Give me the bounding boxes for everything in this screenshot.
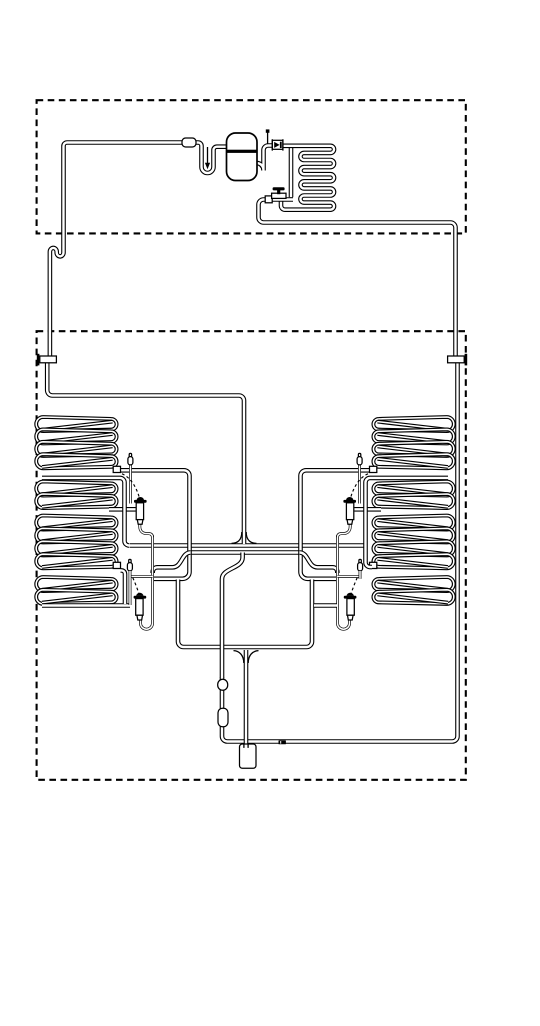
- left evaporator assembly: [36, 417, 190, 647]
- bottom loop horizontal: [184, 645, 307, 650]
- check valve: [272, 140, 283, 149]
- right evaporator assembly (mirrored): [300, 417, 454, 647]
- condenser serpentine: [281, 146, 334, 210]
- feed pipe flare left: [234, 651, 244, 663]
- right-side bottom header stub: [314, 603, 337, 608]
- compressor shell: [227, 133, 258, 181]
- header flare left: [232, 532, 242, 543]
- suction line S-trap drop: [50, 233, 64, 357]
- compressor discharge pipe to check valve: [256, 146, 273, 171]
- left coil outlet line + riser to suction header: [42, 478, 129, 546]
- compressor oil level band: [227, 150, 257, 153]
- right bulkhead sleeve: [448, 356, 465, 363]
- suction header pipe H2: [191, 550, 300, 555]
- accumulator canister: [240, 744, 257, 768]
- right coil outlet line + through-riser to lower fitting: [366, 478, 449, 567]
- condenser feed tee drop: [289, 148, 294, 198]
- liquid line from condenser to right drop: [259, 200, 456, 358]
- central drop from H2 to drier line: [222, 553, 243, 678]
- left bulkhead sleeve: [40, 356, 57, 363]
- drier capsule 1: [218, 679, 228, 690]
- left drop below bulkhead to central feed: [47, 363, 244, 544]
- inline restrictor valve: [279, 740, 286, 744]
- discharge service stem: [267, 132, 269, 144]
- suction muffler: [182, 138, 196, 147]
- machine compartment dashed enclosure: [37, 100, 466, 233]
- drier capsule 2: [218, 708, 228, 726]
- top suction line in machine room: [64, 143, 184, 234]
- cabinet dashed enclosure: [37, 331, 466, 780]
- left lower bulb link line: [129, 571, 132, 605]
- oil trap U at compressor inlet: [196, 143, 227, 174]
- left coil lower fitting drop line: [121, 570, 126, 604]
- drier line, bottom run and right riser: [222, 362, 458, 742]
- liquid line union fitting: [265, 196, 272, 203]
- suction header pipe H1: [130, 543, 368, 548]
- left coil bottom header line: [42, 603, 130, 608]
- right lower bulb link line: [359, 571, 362, 579]
- trap internal dip tube: [207, 147, 209, 164]
- service port fitting: [272, 193, 286, 198]
- header flare right: [246, 532, 256, 543]
- accumulator feed pipe: [244, 650, 249, 744]
- feed pipe flare right: [248, 651, 258, 663]
- service valve tee (black): [273, 187, 285, 190]
